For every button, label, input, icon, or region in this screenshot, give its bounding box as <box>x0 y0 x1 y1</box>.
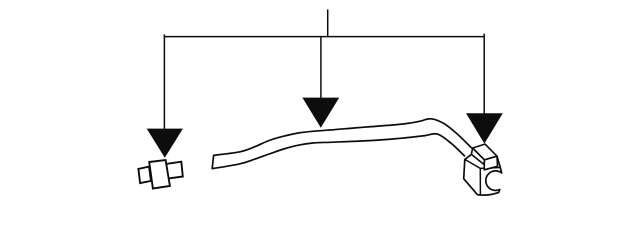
callout crossbar (horizontal bracket line) <box>164 36 485 38</box>
leader line middle <box>320 37 322 99</box>
hose bottom edge <box>212 134 465 169</box>
leader line right <box>483 34 485 115</box>
arrowhead left <box>147 129 183 158</box>
connector left port <box>138 167 151 184</box>
clamp fitting top face <box>473 144 497 160</box>
connector body <box>149 160 170 189</box>
clamp block body fill <box>464 144 502 195</box>
hose left end cap <box>212 155 213 168</box>
arrowhead middle <box>302 98 339 128</box>
hose fill (long curved tube body) <box>212 119 472 169</box>
clamp block outline <box>464 154 502 195</box>
connector right port <box>166 162 183 179</box>
clamp fitting front-right face <box>484 156 497 170</box>
arrowhead right <box>466 113 503 143</box>
clamp front-left vertical edge <box>479 168 481 194</box>
hose top edge <box>214 119 472 156</box>
clamp fitting front-left face <box>471 148 484 165</box>
clamp front-top edge <box>465 159 501 168</box>
leader line left <box>163 34 165 130</box>
callout stem (top vertical stub) <box>327 9 329 37</box>
